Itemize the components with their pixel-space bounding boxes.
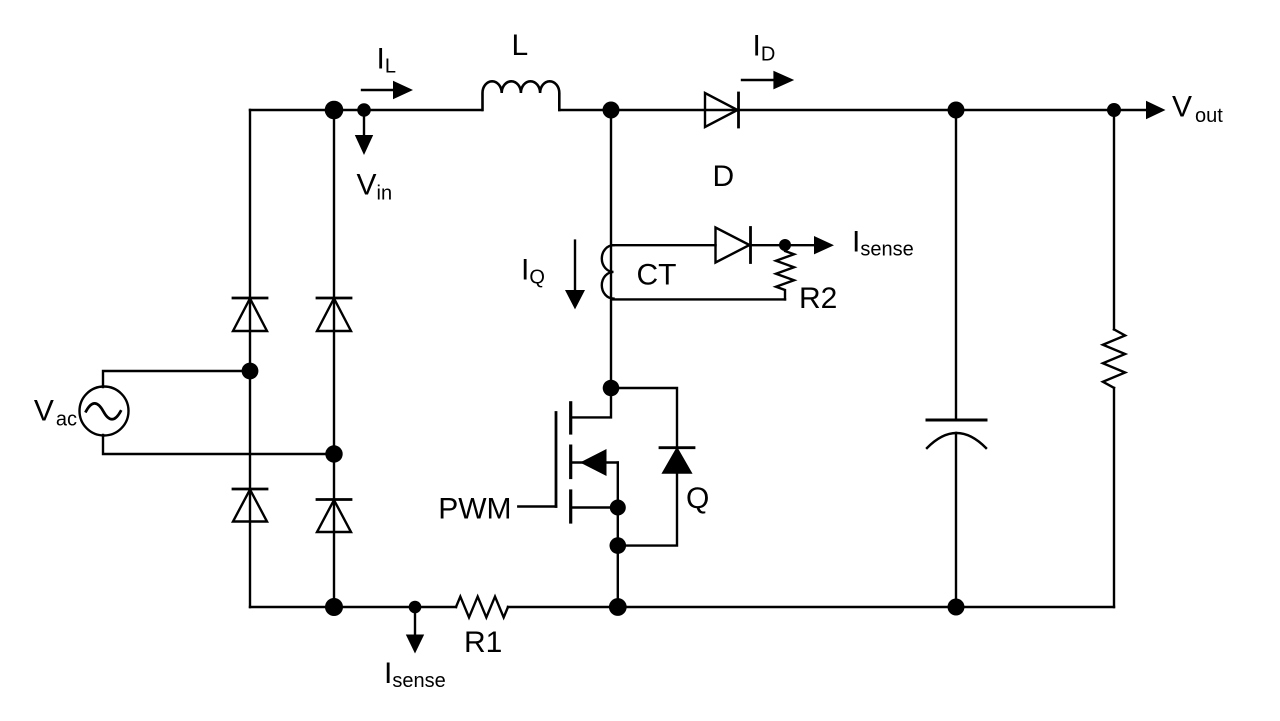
node MOSFET drain: [603, 380, 620, 397]
wire Vac top lead: [103, 371, 250, 387]
resistor load: [1103, 110, 1125, 607]
arrow I_sense top: [814, 236, 834, 254]
resistor R2: [776, 245, 794, 299]
wire bridge left leg: [249, 110, 251, 607]
wire CT secondary top: [613, 244, 716, 246]
wire top rail right segment: [559, 109, 1114, 111]
node CT output: [779, 239, 791, 251]
svg-text:IL: IL: [377, 43, 396, 78]
wire bridge right leg: [333, 110, 335, 607]
diode D2 bridge upper-right: [317, 298, 351, 331]
current transformer CT winding: [602, 245, 614, 298]
arrow V_out: [1114, 101, 1166, 119]
diode CT rectifier: [716, 228, 751, 263]
diode D: [705, 93, 739, 127]
node top rail at bridge right leg: [325, 101, 344, 120]
node body diode bottom: [610, 537, 627, 554]
node bottom rail Isense tap: [409, 601, 422, 614]
svg-text:Vac: Vac: [34, 394, 77, 430]
arrow I_Q: [565, 241, 585, 310]
arrow I_L: [362, 81, 413, 99]
wire bottom rail right segment: [508, 606, 1114, 608]
arrow V_in: [355, 117, 373, 155]
svg-text:ID: ID: [753, 30, 776, 66]
node Vac bottom tap: [325, 445, 342, 462]
node bottom rail at MOSFET source: [609, 598, 627, 616]
resistor R1: [456, 597, 508, 618]
wire Q source bar: [571, 506, 618, 508]
svg-text:CT: CT: [637, 259, 677, 292]
diode D1 bridge upper-left: [233, 298, 267, 331]
wire PWM gate lead: [518, 505, 556, 507]
svg-text:Vout: Vout: [1172, 91, 1223, 128]
wire top rail left segment: [250, 109, 482, 111]
node top rail at load branch: [1107, 103, 1121, 117]
node top rail at capacitor branch: [948, 102, 965, 119]
transistor Q gate bar: [555, 413, 558, 507]
wire Vac bottom lead: [103, 435, 334, 454]
svg-text:R2: R2: [799, 282, 837, 315]
wire bottom rail left segment: [250, 606, 456, 608]
arrow I_D: [742, 71, 794, 90]
transistor Q channel bars: [569, 403, 572, 522]
svg-text:PWM: PWM: [438, 493, 511, 526]
capacitor C output: [927, 110, 986, 607]
inductor L: [483, 81, 560, 110]
node Vac top tap: [242, 363, 259, 380]
diode Q body diode: [660, 448, 694, 473]
svg-text:R1: R1: [464, 626, 502, 659]
svg-text:Vin: Vin: [357, 169, 393, 205]
svg-text:IQ: IQ: [521, 254, 545, 289]
node top rail Vin tap: [357, 103, 371, 117]
arrow I_sense bottom: [406, 614, 424, 654]
svg-text:D: D: [713, 160, 735, 193]
node top rail at MOSFET branch: [603, 102, 620, 119]
wire CT diode to node: [751, 244, 817, 246]
wire MOSFET drain branch: [571, 110, 611, 417]
svg-text:Isense: Isense: [852, 226, 914, 261]
transistor Q body arrow: [572, 449, 618, 476]
svg-text:Q: Q: [686, 482, 709, 515]
node bottom rail at bridge right leg: [325, 598, 343, 616]
wire Q source down to rail: [617, 508, 619, 608]
node MOSFET source: [610, 500, 626, 516]
wire Q body to source: [617, 463, 619, 508]
svg-text:L: L: [512, 29, 529, 62]
diode D4 bridge lower-right: [317, 500, 351, 533]
source Vac: [80, 387, 129, 436]
wire CT secondary bottom: [613, 298, 785, 300]
wire body diode branch top: [611, 388, 677, 546]
node bottom rail at capacitor: [948, 599, 965, 616]
svg-text:Isense: Isense: [384, 657, 446, 692]
diode D3 bridge lower-left: [233, 489, 267, 522]
